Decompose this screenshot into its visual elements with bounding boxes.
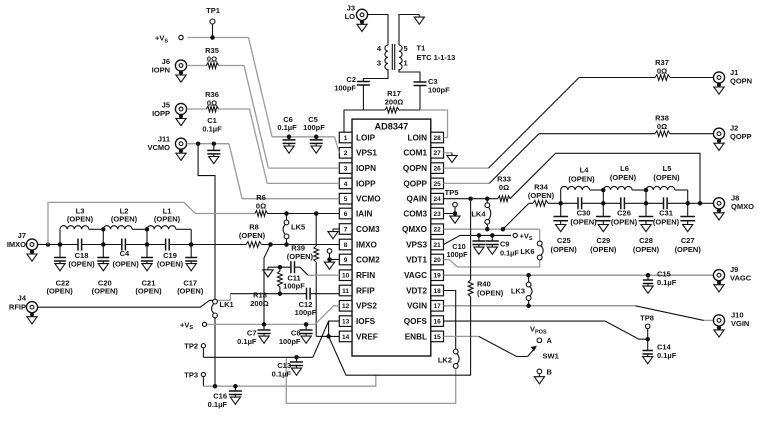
svg-text:IOPP: IOPP [152, 109, 170, 118]
svg-text:200Ω: 200Ω [250, 299, 269, 308]
svg-text:QMXO: QMXO [731, 202, 754, 211]
svg-text:L6: L6 [620, 164, 629, 173]
svg-text:0.1µF: 0.1µF [272, 369, 292, 378]
svg-text:5: 5 [404, 44, 408, 53]
svg-text:TP5: TP5 [445, 188, 459, 197]
svg-text:100pF: 100pF [446, 250, 468, 259]
svg-text:(OPEN): (OPEN) [112, 259, 139, 268]
svg-text:8: 8 [344, 242, 348, 249]
svg-text:23: 23 [433, 211, 441, 218]
svg-text:LK1: LK1 [220, 300, 234, 309]
svg-text:(OPEN): (OPEN) [675, 245, 702, 254]
svg-text:LK2: LK2 [438, 356, 452, 365]
svg-text:R40: R40 [477, 280, 491, 289]
svg-text:IOFS: IOFS [356, 317, 376, 326]
svg-text:VPS1: VPS1 [356, 149, 377, 158]
svg-text:VCMO: VCMO [356, 195, 381, 204]
svg-text:(OPEN): (OPEN) [653, 173, 680, 182]
svg-text:VGIN: VGIN [731, 319, 749, 328]
svg-text:A: A [547, 336, 553, 345]
svg-text:TP2: TP2 [184, 342, 198, 351]
svg-text:0.1µF: 0.1µF [500, 248, 519, 257]
svg-text:4: 4 [344, 181, 348, 188]
svg-text:VPS2: VPS2 [356, 302, 377, 311]
svg-text:27: 27 [433, 150, 441, 157]
svg-text:(OPEN): (OPEN) [157, 259, 184, 268]
svg-text:IOPN: IOPN [356, 164, 376, 173]
svg-text:22: 22 [433, 227, 441, 234]
svg-text:VDT2: VDT2 [406, 286, 427, 295]
svg-text:18: 18 [433, 288, 441, 295]
svg-text:AD8347: AD8347 [375, 122, 409, 132]
svg-text:0.1µF: 0.1µF [657, 351, 677, 360]
svg-text:0Ω: 0Ω [499, 183, 509, 192]
svg-text:COM3: COM3 [403, 209, 427, 218]
svg-text:RFIN: RFIN [356, 271, 375, 280]
svg-text:(OPEN): (OPEN) [653, 218, 680, 227]
svg-text:2: 2 [344, 150, 348, 157]
svg-text:(OPEN): (OPEN) [46, 287, 73, 296]
svg-text:VDT1: VDT1 [406, 255, 427, 264]
svg-text:VGIN: VGIN [407, 302, 427, 311]
svg-text:24: 24 [433, 196, 441, 203]
svg-text:3: 3 [377, 58, 381, 67]
svg-text:100pF: 100pF [283, 282, 305, 291]
svg-text:IOPN: IOPN [152, 65, 170, 74]
svg-text:LOIP: LOIP [356, 133, 376, 142]
svg-text:LOIN: LOIN [407, 133, 427, 142]
svg-text:100pF: 100pF [428, 86, 450, 95]
svg-text:C29: C29 [596, 236, 610, 245]
svg-text:C31: C31 [659, 209, 673, 218]
svg-text:0Ω: 0Ω [207, 55, 217, 64]
svg-text:LK6: LK6 [520, 247, 534, 256]
svg-text:5: 5 [344, 196, 348, 203]
svg-text:(OPEN): (OPEN) [590, 245, 617, 254]
svg-text:16: 16 [433, 319, 441, 326]
svg-text:(OPEN): (OPEN) [111, 215, 138, 224]
svg-text:(OPEN): (OPEN) [477, 289, 504, 298]
svg-text:(OPEN): (OPEN) [177, 287, 204, 296]
svg-text:0.1µF: 0.1µF [237, 337, 257, 346]
svg-text:VPS3: VPS3 [406, 240, 427, 249]
svg-text:13: 13 [342, 319, 350, 326]
svg-text:15: 15 [433, 334, 441, 341]
svg-text:28: 28 [433, 135, 441, 142]
svg-text:20: 20 [433, 257, 441, 264]
svg-text:0Ω: 0Ω [207, 99, 217, 108]
svg-text:IMXO: IMXO [356, 240, 378, 249]
svg-text:14: 14 [342, 334, 350, 341]
svg-text:TP3: TP3 [184, 370, 198, 379]
svg-text:IAIN: IAIN [356, 209, 372, 218]
svg-text:ENBL: ENBL [405, 332, 427, 341]
svg-text:0.1µF: 0.1µF [657, 278, 677, 287]
svg-text:RFIP: RFIP [9, 303, 26, 312]
svg-text:100pF: 100pF [295, 308, 317, 317]
svg-text:200Ω: 200Ω [385, 98, 404, 107]
svg-text:12: 12 [342, 303, 350, 310]
svg-text:B: B [547, 367, 553, 376]
svg-text:VAGC: VAGC [730, 274, 752, 283]
svg-text:C26: C26 [617, 209, 631, 218]
svg-text:11: 11 [342, 288, 349, 295]
svg-text:VAGC: VAGC [404, 271, 427, 280]
svg-text:C28: C28 [639, 236, 653, 245]
svg-text:C9: C9 [500, 240, 509, 249]
svg-text:(OPEN): (OPEN) [239, 231, 266, 240]
svg-text:C27: C27 [681, 236, 695, 245]
svg-text:C25: C25 [557, 236, 571, 245]
svg-text:(OPEN): (OPEN) [287, 252, 314, 261]
svg-text:6: 6 [344, 211, 348, 218]
svg-text:0.1µF: 0.1µF [277, 123, 297, 132]
svg-text:(OPEN): (OPEN) [610, 173, 637, 182]
svg-text:7: 7 [344, 226, 348, 233]
svg-text:0.1µF: 0.1µF [208, 400, 228, 409]
svg-text:LK3: LK3 [511, 287, 525, 296]
svg-text:25: 25 [433, 181, 441, 188]
svg-text:QOPP: QOPP [730, 132, 752, 141]
svg-text:COM2: COM2 [356, 255, 380, 264]
svg-text:J7: J7 [18, 231, 26, 240]
svg-text:C30: C30 [577, 209, 591, 218]
svg-text:1: 1 [404, 58, 408, 67]
svg-text:QMXO: QMXO [402, 225, 428, 234]
svg-text:QOPP: QOPP [403, 179, 427, 188]
svg-text:LK5: LK5 [291, 223, 305, 232]
svg-text:IMXO: IMXO [7, 240, 26, 249]
svg-text:(OPEN): (OPEN) [135, 287, 162, 296]
svg-text:TP8: TP8 [640, 314, 654, 323]
svg-text:QOPN: QOPN [403, 164, 427, 173]
svg-text:VCMO: VCMO [148, 143, 171, 152]
svg-text:LO: LO [345, 12, 356, 21]
svg-text:QOPN: QOPN [730, 77, 752, 86]
svg-text:17: 17 [433, 303, 441, 310]
svg-text:(OPEN): (OPEN) [528, 191, 555, 200]
svg-text:10: 10 [342, 273, 350, 280]
svg-text:QOFS: QOFS [404, 317, 428, 326]
svg-text:9: 9 [344, 257, 348, 264]
svg-text:C4: C4 [120, 249, 130, 258]
svg-text:IOPP: IOPP [356, 179, 376, 188]
svg-text:3: 3 [344, 166, 348, 173]
svg-text:(OPEN): (OPEN) [611, 218, 638, 227]
svg-text:(OPEN): (OPEN) [154, 215, 181, 224]
svg-text:SW1: SW1 [543, 352, 559, 361]
svg-text:T1: T1 [417, 44, 426, 53]
svg-text:(OPEN): (OPEN) [570, 218, 597, 227]
svg-text:ETC 1-1-13: ETC 1-1-13 [417, 53, 456, 62]
svg-text:RFIP: RFIP [356, 286, 375, 295]
svg-text:19: 19 [433, 273, 441, 280]
svg-text:100pF: 100pF [303, 123, 325, 132]
svg-text:100pF: 100pF [279, 337, 301, 346]
svg-text:(OPEN): (OPEN) [550, 245, 577, 254]
svg-text:21: 21 [433, 242, 441, 249]
svg-text:L5: L5 [663, 164, 672, 173]
svg-text:QAIN: QAIN [407, 195, 428, 204]
svg-text:LK4: LK4 [471, 210, 486, 219]
svg-text:J4: J4 [18, 294, 27, 303]
svg-text:0.1µF: 0.1µF [202, 125, 222, 134]
svg-text:(OPEN): (OPEN) [92, 287, 119, 296]
svg-text:0Ω: 0Ω [657, 122, 667, 131]
svg-text:26: 26 [433, 166, 441, 173]
svg-text:(OPEN): (OPEN) [68, 259, 95, 268]
svg-text:(OPEN): (OPEN) [633, 245, 660, 254]
svg-text:COM3: COM3 [356, 225, 380, 234]
svg-text:COM1: COM1 [403, 149, 427, 158]
svg-text:100pF: 100pF [334, 84, 356, 93]
svg-text:(OPEN): (OPEN) [568, 175, 595, 184]
svg-text:(OPEN): (OPEN) [67, 215, 94, 224]
svg-text:L4: L4 [580, 166, 590, 175]
svg-text:0Ω: 0Ω [256, 202, 266, 211]
svg-text:1: 1 [344, 135, 348, 142]
svg-text:TP1: TP1 [206, 6, 220, 15]
svg-text:0Ω: 0Ω [657, 67, 667, 76]
svg-text:VREF: VREF [356, 332, 378, 341]
